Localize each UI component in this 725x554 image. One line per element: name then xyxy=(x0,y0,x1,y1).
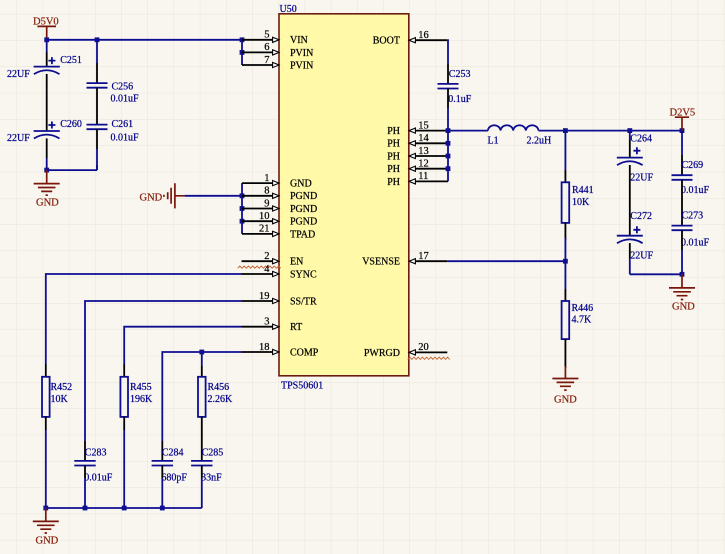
power port D2V5 xyxy=(670,107,696,130)
pin 19 SS/TR xyxy=(242,291,318,308)
wire R455 to rail xyxy=(123,417,125,430)
pin 15 PH xyxy=(387,120,448,137)
resistor R456 xyxy=(198,377,233,417)
svg-text:PH: PH xyxy=(387,177,400,188)
node junction COMP/R456 xyxy=(199,350,204,355)
node junction C256 top xyxy=(95,37,100,42)
svg-text:C284: C284 xyxy=(162,447,184,458)
pin 6 PVIN xyxy=(242,42,313,59)
wire GND bus xyxy=(241,183,243,234)
capacitor C256 xyxy=(87,82,140,105)
svg-text:0.1uF: 0.1uF xyxy=(448,94,472,105)
svg-text:15: 15 xyxy=(418,120,429,131)
resistor R441 xyxy=(562,182,594,223)
svg-text:RT: RT xyxy=(290,322,302,333)
wire COMP net xyxy=(162,352,241,441)
svg-text:SYNC: SYNC xyxy=(290,269,317,280)
svg-text:R446: R446 xyxy=(572,303,594,314)
resistor R446 xyxy=(562,301,594,339)
node junction rail R452 xyxy=(43,506,48,511)
pin 14 PH xyxy=(387,133,448,150)
svg-text:2.2uH: 2.2uH xyxy=(527,136,552,147)
svg-text:2: 2 xyxy=(264,251,269,262)
wire SSTR net xyxy=(85,301,242,441)
svg-text:GND: GND xyxy=(36,198,59,209)
capacitor C272 xyxy=(617,211,654,261)
wire PH to L1 xyxy=(448,130,488,132)
wire C285 to rail xyxy=(201,466,203,479)
svg-text:GND: GND xyxy=(36,535,59,546)
capacitor C283 xyxy=(74,447,113,483)
svg-text:COMP: COMP xyxy=(290,347,319,358)
resistor R452 xyxy=(42,377,72,417)
node junction rail C283 xyxy=(83,506,88,511)
node junction output gnd xyxy=(680,272,685,277)
svg-text:C264: C264 xyxy=(630,134,652,145)
pin 13 PH xyxy=(387,146,448,163)
svg-text:9: 9 xyxy=(264,198,269,209)
svg-text:18: 18 xyxy=(259,342,270,353)
svg-text:22UF: 22UF xyxy=(630,172,653,183)
wire R441 to VSENSE xyxy=(564,223,566,240)
pin 1 GND xyxy=(242,173,312,190)
svg-text:PGND: PGND xyxy=(290,204,317,215)
svg-text:GND: GND xyxy=(672,302,695,313)
svg-text:0.01uF: 0.01uF xyxy=(84,472,113,483)
wire R441 branch top xyxy=(564,131,566,170)
pin 3 RT xyxy=(242,317,303,334)
node junction rail R455 xyxy=(122,506,127,511)
ground left input xyxy=(34,170,60,208)
capacitor C285 xyxy=(191,447,223,483)
wire C283 to rail xyxy=(84,466,86,479)
wire bottom link caps xyxy=(47,165,97,170)
wire bottom gnd rail xyxy=(46,507,202,509)
svg-text:C261: C261 xyxy=(112,119,134,130)
svg-text:C272: C272 xyxy=(630,211,652,222)
wire C261 to gnd rail xyxy=(96,129,98,149)
capacitor C253 xyxy=(438,69,472,105)
node junction PH15 xyxy=(446,128,451,133)
svg-text:GND: GND xyxy=(554,394,577,405)
node junction VIN bus pin6 xyxy=(240,50,245,55)
svg-text:C260: C260 xyxy=(60,119,82,130)
node junction VIN bus pin5 xyxy=(240,37,245,42)
svg-text:196K: 196K xyxy=(130,394,153,405)
svg-text:PH: PH xyxy=(387,139,400,150)
capacitor C264 xyxy=(617,134,654,184)
svg-text:8: 8 xyxy=(264,186,269,197)
svg-text:C285: C285 xyxy=(202,447,224,458)
node junction PH14 xyxy=(446,141,451,146)
wire R456 to C285 xyxy=(201,417,203,461)
svg-text:VSENSE: VSENSE xyxy=(362,257,400,268)
svg-text:PWRGD: PWRGD xyxy=(364,348,400,359)
wire C251 branch xyxy=(46,40,48,52)
svg-text:10K: 10K xyxy=(51,394,69,405)
svg-text:1: 1 xyxy=(264,173,269,184)
wire BOOT to C253 xyxy=(446,40,449,64)
resistor R455 xyxy=(120,377,153,417)
svg-text:19: 19 xyxy=(259,291,270,302)
wire C260 to gnd rail xyxy=(46,138,48,158)
capacitor C269 xyxy=(672,160,710,196)
pin 12 PH xyxy=(387,159,448,176)
svg-text:0.01uF: 0.01uF xyxy=(111,133,140,144)
pin 5 VIN xyxy=(242,30,308,47)
wire VSENSE xyxy=(447,260,565,262)
svg-text:R456: R456 xyxy=(208,382,230,393)
svg-text:PGND: PGND xyxy=(290,217,317,228)
node junction gnd bus pin8 xyxy=(240,193,245,198)
svg-text:C283: C283 xyxy=(85,447,107,458)
ground output xyxy=(669,274,695,312)
pin 2 EN unconnected xyxy=(238,251,304,268)
svg-text:12: 12 xyxy=(418,159,429,170)
wire SYNC net xyxy=(46,274,242,364)
pin 9 PGND xyxy=(242,198,317,215)
svg-text:BOOT: BOOT xyxy=(373,36,400,47)
wire C251 to C260 xyxy=(46,74,48,131)
svg-text:L1: L1 xyxy=(488,136,499,147)
svg-text:0.01uF: 0.01uF xyxy=(111,94,140,105)
svg-text:C253: C253 xyxy=(449,69,471,80)
capacitor C261 xyxy=(87,119,140,143)
pin 20 PWRGD unconnected xyxy=(364,342,450,359)
wire C256 to C261 xyxy=(96,88,98,125)
svg-text:R452: R452 xyxy=(51,382,73,393)
svg-text:6: 6 xyxy=(264,42,269,53)
node junction gnd bus pin9 xyxy=(240,206,245,211)
pin 17 VSENSE xyxy=(362,251,447,268)
svg-text:EN: EN xyxy=(290,257,303,268)
svg-text:3: 3 xyxy=(264,317,269,328)
svg-text:PGND: PGND xyxy=(290,191,317,202)
svg-text:680pF: 680pF xyxy=(161,472,187,483)
op-amp U50 body TPS50601 xyxy=(279,4,409,391)
wire VIN bus xyxy=(241,40,243,65)
svg-text:10K: 10K xyxy=(572,197,590,208)
node junction rail C284 xyxy=(160,506,165,511)
pin 10 PGND xyxy=(242,211,317,228)
svg-text:C273: C273 xyxy=(682,211,704,222)
wire C264 to C272 xyxy=(629,165,631,236)
wire C256 branch xyxy=(96,40,98,63)
wire C269 branch xyxy=(681,131,683,155)
svg-text:PH: PH xyxy=(387,151,400,162)
svg-text:0.01uF: 0.01uF xyxy=(681,237,710,248)
wire GND to bus xyxy=(185,195,242,197)
power port D5V0 xyxy=(33,16,59,40)
wire C272 to gnd rail xyxy=(629,243,631,258)
svg-text:PVIN: PVIN xyxy=(290,60,313,71)
svg-text:5: 5 xyxy=(264,30,269,41)
node junction PH12 xyxy=(446,166,451,171)
svg-text:C256: C256 xyxy=(112,82,134,93)
power port GND sideways xyxy=(140,183,185,208)
svg-text:13: 13 xyxy=(418,146,429,157)
pin 4 SYNC xyxy=(242,264,318,281)
pin 18 COMP xyxy=(242,342,319,359)
svg-text:VIN: VIN xyxy=(290,35,308,46)
node junction PH13 xyxy=(446,154,451,159)
svg-text:GND: GND xyxy=(140,192,163,203)
wire C284 to rail xyxy=(161,466,163,479)
wire C273 to gnd xyxy=(681,230,683,250)
node junction gnd bus pin10 xyxy=(240,219,245,224)
node junction gnd left xyxy=(44,168,49,173)
node junction D2V5/C269 xyxy=(680,128,685,133)
svg-text:U50: U50 xyxy=(280,4,297,15)
capacitor C284 xyxy=(152,447,188,483)
pin 7 PVIN xyxy=(242,55,313,72)
ground bottom left xyxy=(33,508,59,546)
svg-text:0.01uF: 0.01uF xyxy=(681,185,710,196)
wire C253 to PH bus xyxy=(447,89,449,109)
wire VSENSE to R446 xyxy=(564,261,566,289)
wire output gnd rail xyxy=(630,273,682,275)
svg-text:2.26K: 2.26K xyxy=(208,394,234,405)
wire R446 to gnd xyxy=(564,339,566,368)
capacitor C273 xyxy=(672,211,710,249)
node junction VSENSE xyxy=(563,259,568,264)
svg-text:10: 10 xyxy=(259,211,270,222)
wire RT net xyxy=(124,327,241,364)
svg-text:22UF: 22UF xyxy=(7,133,30,144)
svg-text:R455: R455 xyxy=(130,382,152,393)
svg-text:4: 4 xyxy=(264,264,270,275)
wire L1 to D2V5 xyxy=(539,130,683,132)
svg-text:22UF: 22UF xyxy=(630,250,653,261)
svg-text:R441: R441 xyxy=(572,185,594,196)
wire R452 to rail xyxy=(45,417,47,430)
svg-text:C269: C269 xyxy=(682,160,704,171)
wire C269 to C273 xyxy=(681,180,683,226)
svg-text:33nF: 33nF xyxy=(201,472,222,483)
svg-text:4.7K: 4.7K xyxy=(572,314,593,325)
svg-text:22UF: 22UF xyxy=(7,69,30,80)
svg-text:C251: C251 xyxy=(60,55,82,66)
svg-text:PH: PH xyxy=(387,164,400,175)
svg-text:SS/TR: SS/TR xyxy=(290,296,317,307)
svg-text:PH: PH xyxy=(387,126,400,137)
svg-text:TPS50601: TPS50601 xyxy=(281,380,323,391)
svg-text:11: 11 xyxy=(418,171,428,182)
capacitor C251 xyxy=(7,55,82,80)
svg-text:17: 17 xyxy=(418,251,429,262)
wire COMP to R456 xyxy=(201,352,203,366)
svg-text:20: 20 xyxy=(418,342,429,353)
pin 11 PH xyxy=(387,171,448,188)
capacitor C260 xyxy=(7,119,82,144)
node junction R441 top xyxy=(563,128,568,133)
svg-text:TPAD: TPAD xyxy=(290,229,315,240)
svg-text:16: 16 xyxy=(418,30,429,41)
pin 16 BOOT xyxy=(373,30,448,47)
pin 21 TPAD xyxy=(242,224,315,241)
svg-text:14: 14 xyxy=(418,133,429,144)
wire VIN top rail xyxy=(47,39,242,41)
ground R446 xyxy=(552,366,578,405)
node junction D5V0/C251 xyxy=(44,37,49,42)
svg-text:7: 7 xyxy=(264,55,269,66)
svg-text:PVIN: PVIN xyxy=(290,48,313,59)
pin 8 PGND xyxy=(242,186,317,203)
node junction C264 top xyxy=(627,128,632,133)
inductor L1 2.2uH xyxy=(488,125,552,146)
svg-text:21: 21 xyxy=(259,224,270,235)
svg-text:GND: GND xyxy=(290,179,312,190)
wire C264 branch xyxy=(629,131,631,140)
